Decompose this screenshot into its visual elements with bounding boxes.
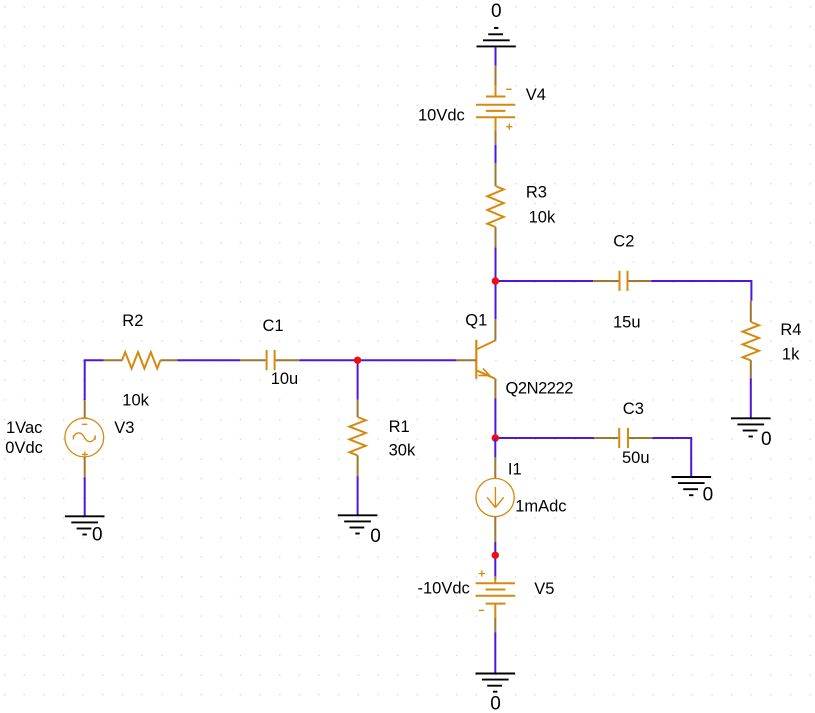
svg-text:Q1: Q1 (465, 312, 487, 330)
wire V3 to ground (84, 477, 86, 516)
voltage source V4 (476, 66, 515, 145)
voltage source V5 (476, 570, 515, 632)
svg-text:0: 0 (92, 525, 103, 546)
svg-text:15u: 15u (613, 314, 641, 332)
wire node COLL to C2 (495, 280, 594, 282)
svg-text:10u: 10u (271, 370, 299, 388)
resistor R2 (104, 352, 178, 368)
svg-text:0: 0 (370, 526, 381, 547)
ground GND_C3 (672, 477, 712, 495)
resistor R4 (743, 301, 759, 379)
svg-text:R1: R1 (389, 418, 410, 436)
wire Q1 emitter to node EMIT (494, 399, 496, 439)
wire node COLL to Q1 collector (495, 281, 497, 319)
wire R2 to C1 (178, 359, 241, 361)
svg-text:30k: 30k (389, 441, 416, 459)
svg-text:C3: C3 (623, 400, 644, 418)
svg-text:1Vac: 1Vac (6, 419, 42, 437)
wire gnd-top to V4 (495, 47, 497, 65)
svg-text:-10Vdc: -10Vdc (418, 580, 470, 598)
svg-text:0: 0 (490, 694, 501, 713)
ground GND_R4 (731, 418, 771, 436)
ground GND_V5 (476, 674, 516, 692)
svg-text:0: 0 (703, 485, 714, 506)
svg-text:10Vdc: 10Vdc (418, 106, 465, 124)
svg-text:C2: C2 (613, 233, 634, 251)
wire V4 to R3 (495, 145, 497, 163)
svg-text:1k: 1k (782, 345, 800, 363)
wire node BASE to Q1 base (358, 359, 457, 361)
capacitor C3 (594, 428, 652, 448)
capacitor C2 (593, 271, 651, 291)
wire R1 to ground (357, 476, 359, 515)
wire C1 to node BASE (299, 359, 357, 361)
wire R4 to ground (750, 379, 752, 419)
current source I1 (476, 457, 514, 542)
svg-text:R2: R2 (122, 312, 143, 330)
node COLL junction (492, 277, 499, 284)
svg-text:V3: V3 (114, 419, 134, 437)
wire C2 to R4 corner (651, 281, 751, 301)
svg-text:V4: V4 (526, 86, 546, 104)
wire node BASE down to R1 (357, 360, 359, 399)
transistor Q1 (456, 319, 495, 399)
ground GND_V3 (65, 516, 105, 534)
wire node EMIT to C3 (495, 437, 594, 439)
AC source V3 (65, 400, 104, 477)
wire I1 to node VEE (494, 542, 496, 576)
wire V5 to ground (494, 632, 496, 673)
svg-text:1mAdc: 1mAdc (515, 498, 566, 516)
node VEE junction (492, 552, 499, 559)
resistor R1 (349, 400, 365, 477)
svg-text:I1: I1 (508, 461, 522, 479)
wire corner V3 top (85, 360, 104, 400)
svg-text:Q2N2222: Q2N2222 (506, 380, 574, 398)
svg-text:10k: 10k (529, 208, 556, 226)
svg-text:0: 0 (491, 1, 502, 22)
node EMIT junction (492, 434, 499, 441)
wire C3 to ground (652, 438, 691, 477)
svg-text:0Vdc: 0Vdc (5, 439, 43, 457)
wire node EMIT to I1 (494, 438, 496, 457)
capacitor C1 (240, 350, 299, 370)
resistor R3 (487, 163, 503, 248)
svg-text:R3: R3 (526, 184, 547, 202)
wire R3 to node COLL (495, 248, 497, 282)
svg-text:10k: 10k (122, 391, 149, 409)
ground GND_R1 (338, 515, 378, 533)
svg-text:C1: C1 (263, 317, 284, 335)
svg-text:50u: 50u (622, 449, 650, 467)
svg-text:R4: R4 (780, 321, 801, 339)
svg-text:0: 0 (761, 429, 772, 450)
svg-text:V5: V5 (534, 580, 554, 598)
ground GND_TOP (node 0, flipped) (477, 28, 516, 46)
node BASE junction (354, 357, 361, 364)
